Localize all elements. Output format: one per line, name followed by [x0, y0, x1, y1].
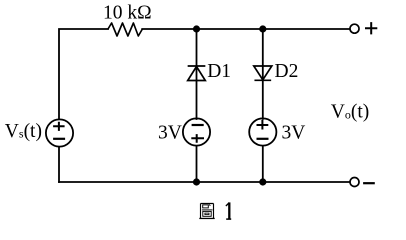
label + (output polarity) [365, 22, 377, 34]
wire top (resistor to + terminal) [142, 28, 349, 30]
wire bottom rail [59, 181, 350, 183]
battery 3V (D1 branch) [183, 118, 210, 145]
wire left vertical bottom (source to bottom rail) [58, 147, 60, 182]
svg-text:10 kΩ: 10 kΩ [103, 3, 152, 24]
caption character 圖 (drawn) [199, 204, 214, 219]
voltage source Vs [46, 119, 73, 146]
svg-text:D1: D1 [207, 61, 231, 82]
terminal + (open circle) [350, 24, 359, 33]
wire D1 branch lower [196, 146, 198, 182]
junction dot top D2 [259, 25, 266, 32]
wire D1 branch upper [196, 29, 198, 119]
junction dot top D1 [193, 25, 200, 32]
wire D2 branch upper [262, 29, 264, 119]
diode D2 [254, 66, 272, 80]
svg-text:3V: 3V [282, 122, 306, 143]
wire top-left horizontal (source to resistor) [59, 29, 108, 119]
wire D2 branch lower [262, 146, 264, 182]
battery 3V (D2 branch) [249, 118, 276, 145]
junction dot bottom D1 [193, 178, 200, 185]
terminal − (open circle) [350, 178, 359, 187]
diode D1 [188, 66, 206, 81]
svg-text:3V: 3V [158, 122, 182, 143]
junction dot bottom D2 [259, 178, 266, 185]
svg-text:D2: D2 [275, 61, 299, 82]
label − (output polarity) [363, 182, 375, 184]
svg-text:Vs(t): Vs(t) [5, 121, 42, 142]
caption figure number 1 [226, 202, 231, 219]
svg-text:Vo(t): Vo(t) [331, 102, 370, 123]
resistor 10 kΩ zigzag [108, 23, 142, 36]
